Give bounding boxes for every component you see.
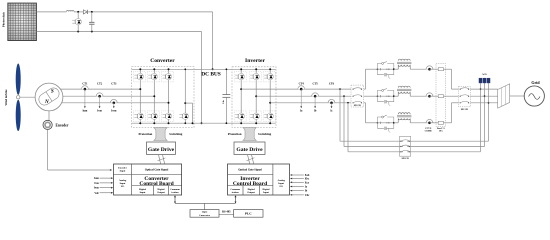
svg-text:Ium: Ium (94, 177, 99, 180)
svg-text:Ebc: Ebc (305, 178, 310, 181)
svg-text:Input: Input (263, 191, 269, 194)
svg-text:CT1: CT1 (82, 82, 88, 85)
svg-text:Photovoltaic: Photovoltaic (3, 11, 6, 27)
svg-text:Converter: Converter (150, 58, 175, 64)
svg-text:Control Board: Control Board (233, 181, 267, 187)
svg-text:Input: Input (120, 169, 126, 172)
svg-text:Output: Output (247, 191, 255, 194)
svg-text:Output: Output (157, 191, 165, 194)
svg-text:PLC: PLC (245, 212, 252, 216)
svg-text:Gate Drive: Gate Drive (236, 147, 263, 153)
svg-text:CT2: CT2 (97, 82, 103, 85)
svg-text:N: N (44, 99, 49, 105)
svg-text:Converter: Converter (199, 214, 211, 217)
svg-text:DC BUS: DC BUS (201, 71, 221, 77)
svg-text:Wind turbine: Wind turbine (5, 89, 8, 106)
svg-text:Optical Gate Signal: Optical Gate Signal (145, 168, 169, 171)
svg-text:S: S (51, 89, 54, 95)
svg-text:Grid: Grid (531, 80, 540, 85)
svg-text:Ia: Ia (300, 109, 303, 112)
svg-text:Ivm: Ivm (94, 182, 99, 185)
svg-text:Gate Drive: Gate Drive (148, 147, 175, 153)
svg-text:MCCB: MCCB (354, 105, 361, 107)
svg-text:Iwm: Iwm (111, 109, 117, 112)
svg-text:CT4: CT4 (299, 82, 305, 85)
svg-text:Vdc: Vdc (94, 192, 99, 195)
svg-text:CT5: CT5 (313, 82, 319, 85)
svg-text:Optical Gate Signal: Optical Gate Signal (238, 168, 262, 171)
svg-text:RS-485: RS-485 (222, 211, 231, 214)
svg-text:ication: ication (172, 191, 180, 194)
svg-text:CT3: CT3 (111, 82, 117, 85)
svg-text:ACL: ACL (482, 73, 488, 76)
svg-text:Encoder: Encoder (56, 124, 69, 128)
svg-text:COMB: COMB (425, 130, 432, 132)
svg-text:Control Board: Control Board (139, 181, 173, 187)
svg-text:Ib: Ib (314, 109, 317, 112)
svg-text:Iwm: Iwm (94, 187, 100, 190)
svg-text:Inverter: Inverter (245, 58, 265, 64)
svg-text:Switching: Switching (169, 132, 183, 136)
svg-text:CT6: CT6 (329, 82, 335, 85)
svg-text:Switching: Switching (258, 132, 272, 136)
svg-text:I/O: I/O (121, 185, 125, 188)
svg-text:MCCB: MCCB (402, 158, 409, 160)
svg-text:Cdc: Cdc (223, 100, 225, 104)
svg-text:MCCB: MCCB (461, 109, 468, 111)
svg-text:Eca: Eca (305, 181, 310, 184)
svg-text:Ium: Ium (83, 109, 89, 112)
svg-text:Ic: Ic (330, 109, 333, 112)
svg-text:Protection: Protection (228, 132, 242, 136)
svg-text:I/O: I/O (279, 185, 283, 188)
svg-text:Vdc: Vdc (305, 194, 310, 197)
svg-text:Protection: Protection (139, 132, 153, 136)
svg-text:Input: Input (140, 191, 146, 194)
svg-text:Ia: Ia (305, 186, 308, 189)
svg-text:10A: 10A (439, 129, 443, 132)
svg-text:Ivm: Ivm (97, 109, 102, 112)
svg-text:Ib: Ib (305, 190, 308, 193)
svg-text:ication: ication (232, 191, 240, 194)
